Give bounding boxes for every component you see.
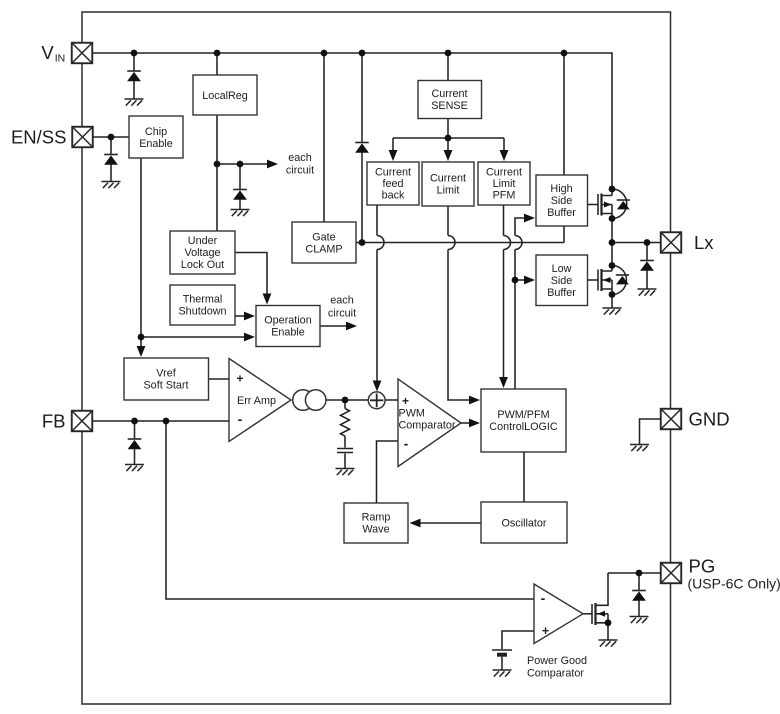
svg-text:GND: GND [689, 409, 730, 430]
svg-text:PG: PG [689, 556, 716, 577]
svg-text:Current: Current [430, 173, 466, 185]
svg-text:Comparator: Comparator [527, 668, 584, 680]
svg-text:Buffer: Buffer [547, 287, 576, 299]
svg-text:Lock Out: Lock Out [181, 259, 224, 271]
svg-text:-: - [404, 436, 409, 452]
svg-text:ControlLOGIC: ControlLOGIC [489, 421, 558, 433]
svg-text:Enable: Enable [139, 138, 173, 150]
svg-text:Ramp: Ramp [362, 512, 391, 524]
svg-text:Vref: Vref [156, 368, 176, 380]
svg-text:Err Amp: Err Amp [237, 395, 276, 407]
svg-text:-: - [238, 411, 243, 427]
svg-text:Gate: Gate [312, 232, 335, 244]
svg-text:EN/SS: EN/SS [11, 127, 67, 148]
svg-text:Oscillator: Oscillator [502, 518, 547, 530]
svg-text:Under: Under [188, 235, 218, 247]
svg-text:circuit: circuit [328, 308, 356, 320]
svg-text:CLAMP: CLAMP [305, 244, 342, 256]
svg-text:Limit: Limit [437, 185, 460, 197]
svg-text:Current: Current [486, 167, 522, 179]
svg-text:Comparator: Comparator [399, 420, 456, 432]
svg-text:+: + [236, 372, 243, 386]
svg-text:Buffer: Buffer [547, 207, 576, 219]
svg-text:back: back [382, 190, 405, 202]
svg-text:+: + [402, 394, 409, 408]
svg-text:feed: feed [382, 178, 403, 190]
svg-text:FB: FB [42, 411, 66, 432]
svg-text:+: + [542, 624, 549, 638]
svg-text:Wave: Wave [362, 524, 389, 536]
svg-text:Limit: Limit [493, 178, 516, 190]
svg-text:Operation: Operation [264, 315, 311, 327]
svg-text:Power Good: Power Good [527, 655, 587, 667]
svg-text:Current: Current [375, 167, 411, 179]
svg-text:Soft Start: Soft Start [143, 380, 188, 392]
svg-text:Low: Low [552, 263, 572, 275]
svg-text:(USP-6C Only): (USP-6C Only) [688, 576, 780, 592]
svg-text:PWM/PFM: PWM/PFM [497, 409, 549, 421]
svg-text:PFM: PFM [493, 190, 516, 202]
svg-text:SENSE: SENSE [431, 100, 468, 112]
svg-text:High: High [550, 183, 572, 195]
svg-text:each: each [330, 295, 353, 307]
svg-text:-: - [541, 590, 546, 606]
svg-text:PWM: PWM [399, 408, 425, 420]
svg-text:Enable: Enable [271, 327, 305, 339]
svg-text:Shutdown: Shutdown [178, 306, 226, 318]
svg-text:V: V [41, 42, 54, 63]
svg-text:Lx: Lx [694, 232, 714, 253]
svg-text:circuit: circuit [286, 165, 314, 177]
svg-text:Side: Side [551, 275, 573, 287]
svg-text:Chip: Chip [145, 126, 167, 138]
svg-text:IN: IN [55, 53, 66, 65]
svg-text:Voltage: Voltage [184, 247, 220, 259]
svg-text:LocalReg: LocalReg [202, 90, 248, 102]
svg-text:Current: Current [431, 88, 467, 100]
svg-text:each: each [288, 152, 311, 164]
svg-text:Side: Side [551, 195, 573, 207]
svg-text:Thermal: Thermal [183, 294, 223, 306]
